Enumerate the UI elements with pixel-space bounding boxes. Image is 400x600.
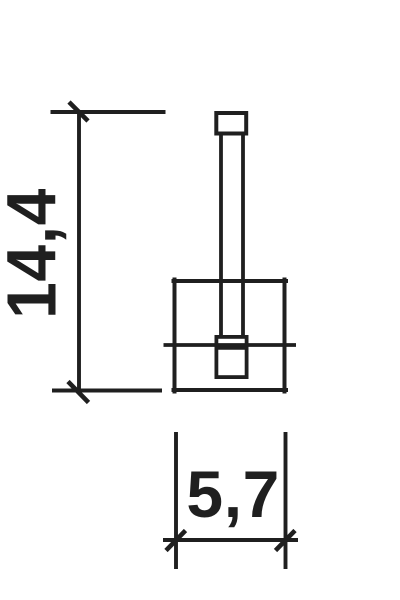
wire horizontal dimension line 5,7 bbox=[163, 538, 298, 542]
wire vertical dimension line 14,4 bbox=[77, 112, 81, 393]
wire left extension line 5,7 bbox=[174, 432, 178, 569]
node tick right bbox=[276, 531, 296, 551]
node tick top bbox=[69, 102, 88, 121]
collar square at rod bottom bbox=[216, 337, 246, 377]
svg-text:14,4: 14,4 bbox=[0, 188, 71, 319]
wire rod right edge bbox=[241, 135, 245, 337]
wire collar inner line bbox=[215, 346, 248, 350]
node tick left bbox=[166, 531, 186, 551]
box outer square bbox=[172, 278, 289, 394]
cap square at rod top bbox=[216, 113, 246, 134]
node tick bottom bbox=[68, 382, 89, 403]
wire crossing horizontal line bbox=[164, 343, 297, 347]
wire top extension line bbox=[51, 110, 166, 114]
svg-text:5,7: 5,7 bbox=[186, 457, 280, 531]
wire rod left edge bbox=[219, 135, 223, 337]
wire right extension line 5,7 bbox=[284, 432, 288, 569]
wire bottom extension line bbox=[52, 389, 162, 393]
